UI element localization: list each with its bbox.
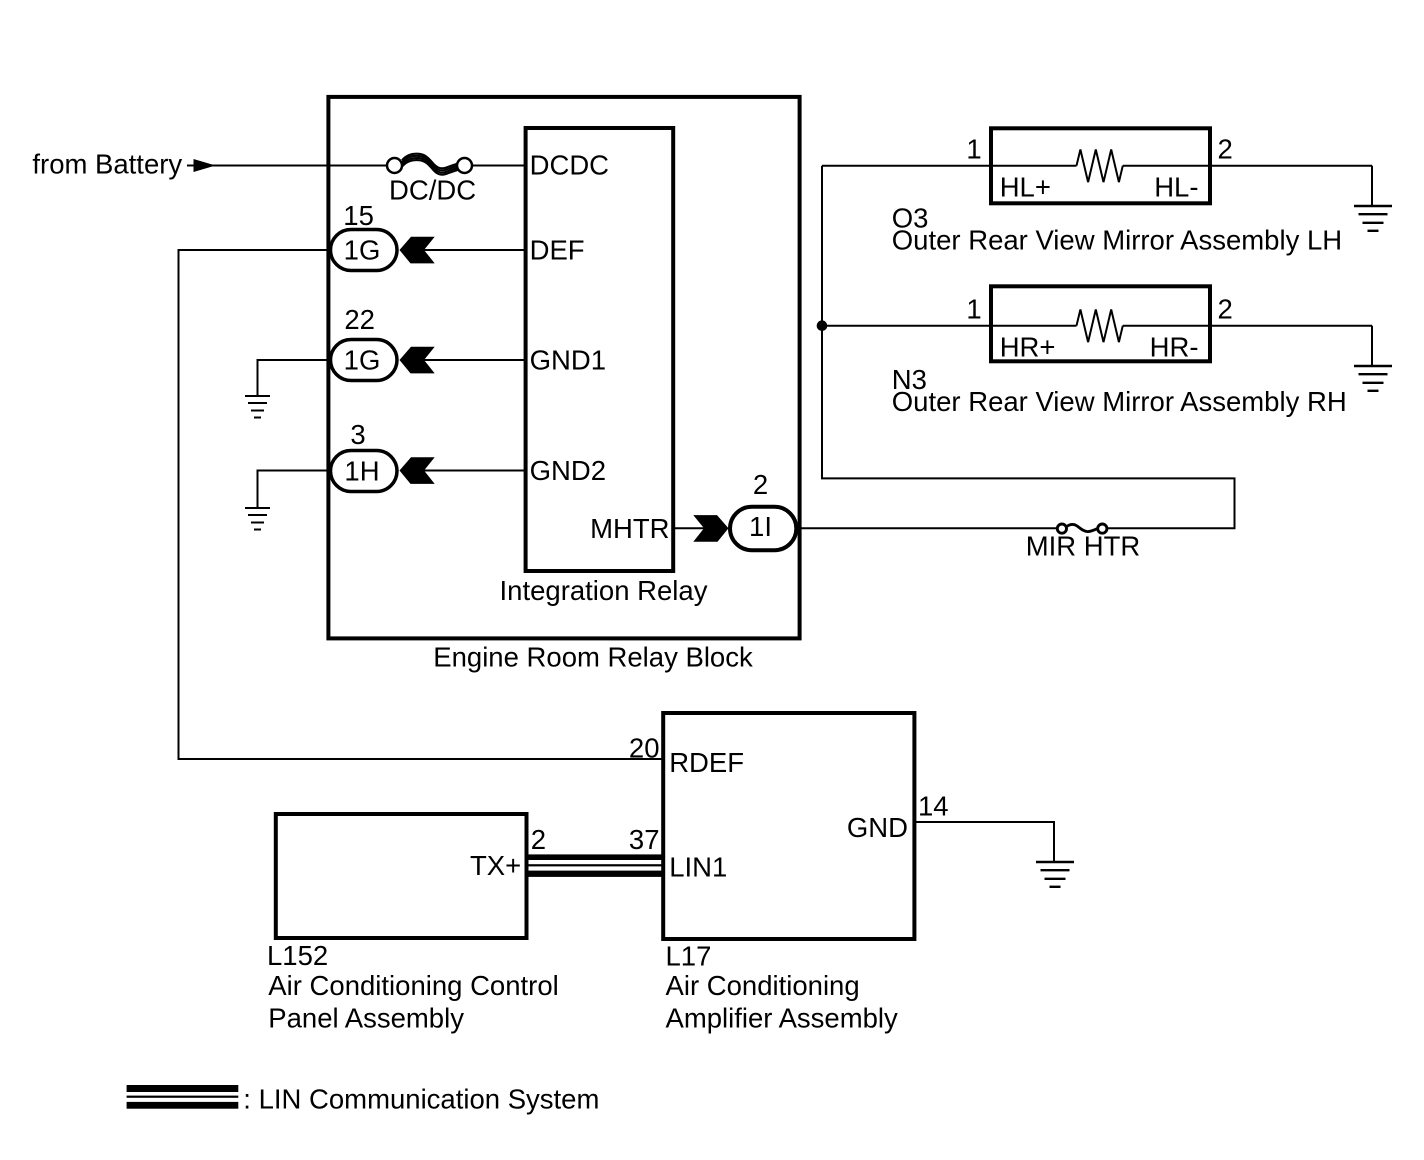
svg-text:GND: GND: [847, 812, 908, 843]
svg-text:GND2: GND2: [530, 455, 606, 486]
svg-text:1: 1: [966, 294, 981, 325]
svg-text:from Battery: from Battery: [32, 149, 182, 180]
svg-text:1G: 1G: [344, 345, 381, 376]
svg-text:22: 22: [344, 304, 375, 335]
svg-text:2: 2: [531, 824, 546, 855]
svg-text:Air Conditioning: Air Conditioning: [666, 970, 860, 1001]
svg-text:HL+: HL+: [1000, 172, 1051, 203]
svg-text:RDEF: RDEF: [669, 747, 744, 778]
svg-text:GND1: GND1: [530, 345, 606, 376]
svg-text:2: 2: [1218, 134, 1233, 165]
svg-text:2: 2: [1218, 294, 1233, 325]
svg-text:Air Conditioning Control: Air Conditioning Control: [268, 970, 558, 1001]
svg-text:HR-: HR-: [1150, 332, 1199, 363]
svg-text:1G: 1G: [344, 235, 381, 266]
svg-text:14: 14: [918, 791, 949, 822]
svg-text:1I: 1I: [749, 511, 772, 542]
svg-text:DCDC: DCDC: [530, 149, 609, 180]
svg-text:3: 3: [350, 419, 365, 450]
svg-text:: LIN Communication System: : LIN Communication System: [243, 1084, 599, 1115]
svg-text:2: 2: [753, 469, 768, 500]
svg-text:Outer Rear View Mirror Assembl: Outer Rear View Mirror Assembly RH: [892, 386, 1347, 417]
svg-text:HL-: HL-: [1154, 172, 1198, 203]
svg-text:LIN1: LIN1: [669, 852, 727, 883]
svg-text:37: 37: [629, 824, 660, 855]
svg-text:1H: 1H: [344, 456, 379, 487]
svg-text:20: 20: [629, 733, 660, 764]
svg-text:L17: L17: [666, 941, 712, 972]
svg-text:L152: L152: [267, 940, 328, 971]
svg-text:HR+: HR+: [1000, 332, 1056, 363]
svg-text:Outer Rear View Mirror Assembl: Outer Rear View Mirror Assembly LH: [892, 225, 1342, 256]
svg-text:DC/DC: DC/DC: [389, 175, 476, 206]
svg-text:Engine Room Relay Block: Engine Room Relay Block: [433, 642, 753, 673]
svg-text:1: 1: [966, 134, 981, 165]
svg-text:DEF: DEF: [530, 235, 585, 266]
svg-text:TX+: TX+: [470, 850, 521, 881]
svg-text:15: 15: [343, 200, 374, 231]
svg-text:MIR HTR: MIR HTR: [1026, 530, 1141, 561]
svg-text:Integration Relay: Integration Relay: [500, 575, 708, 606]
svg-text:Panel Assembly: Panel Assembly: [268, 1003, 464, 1034]
svg-text:Amplifier Assembly: Amplifier Assembly: [666, 1003, 899, 1034]
svg-text:MHTR: MHTR: [590, 513, 669, 544]
